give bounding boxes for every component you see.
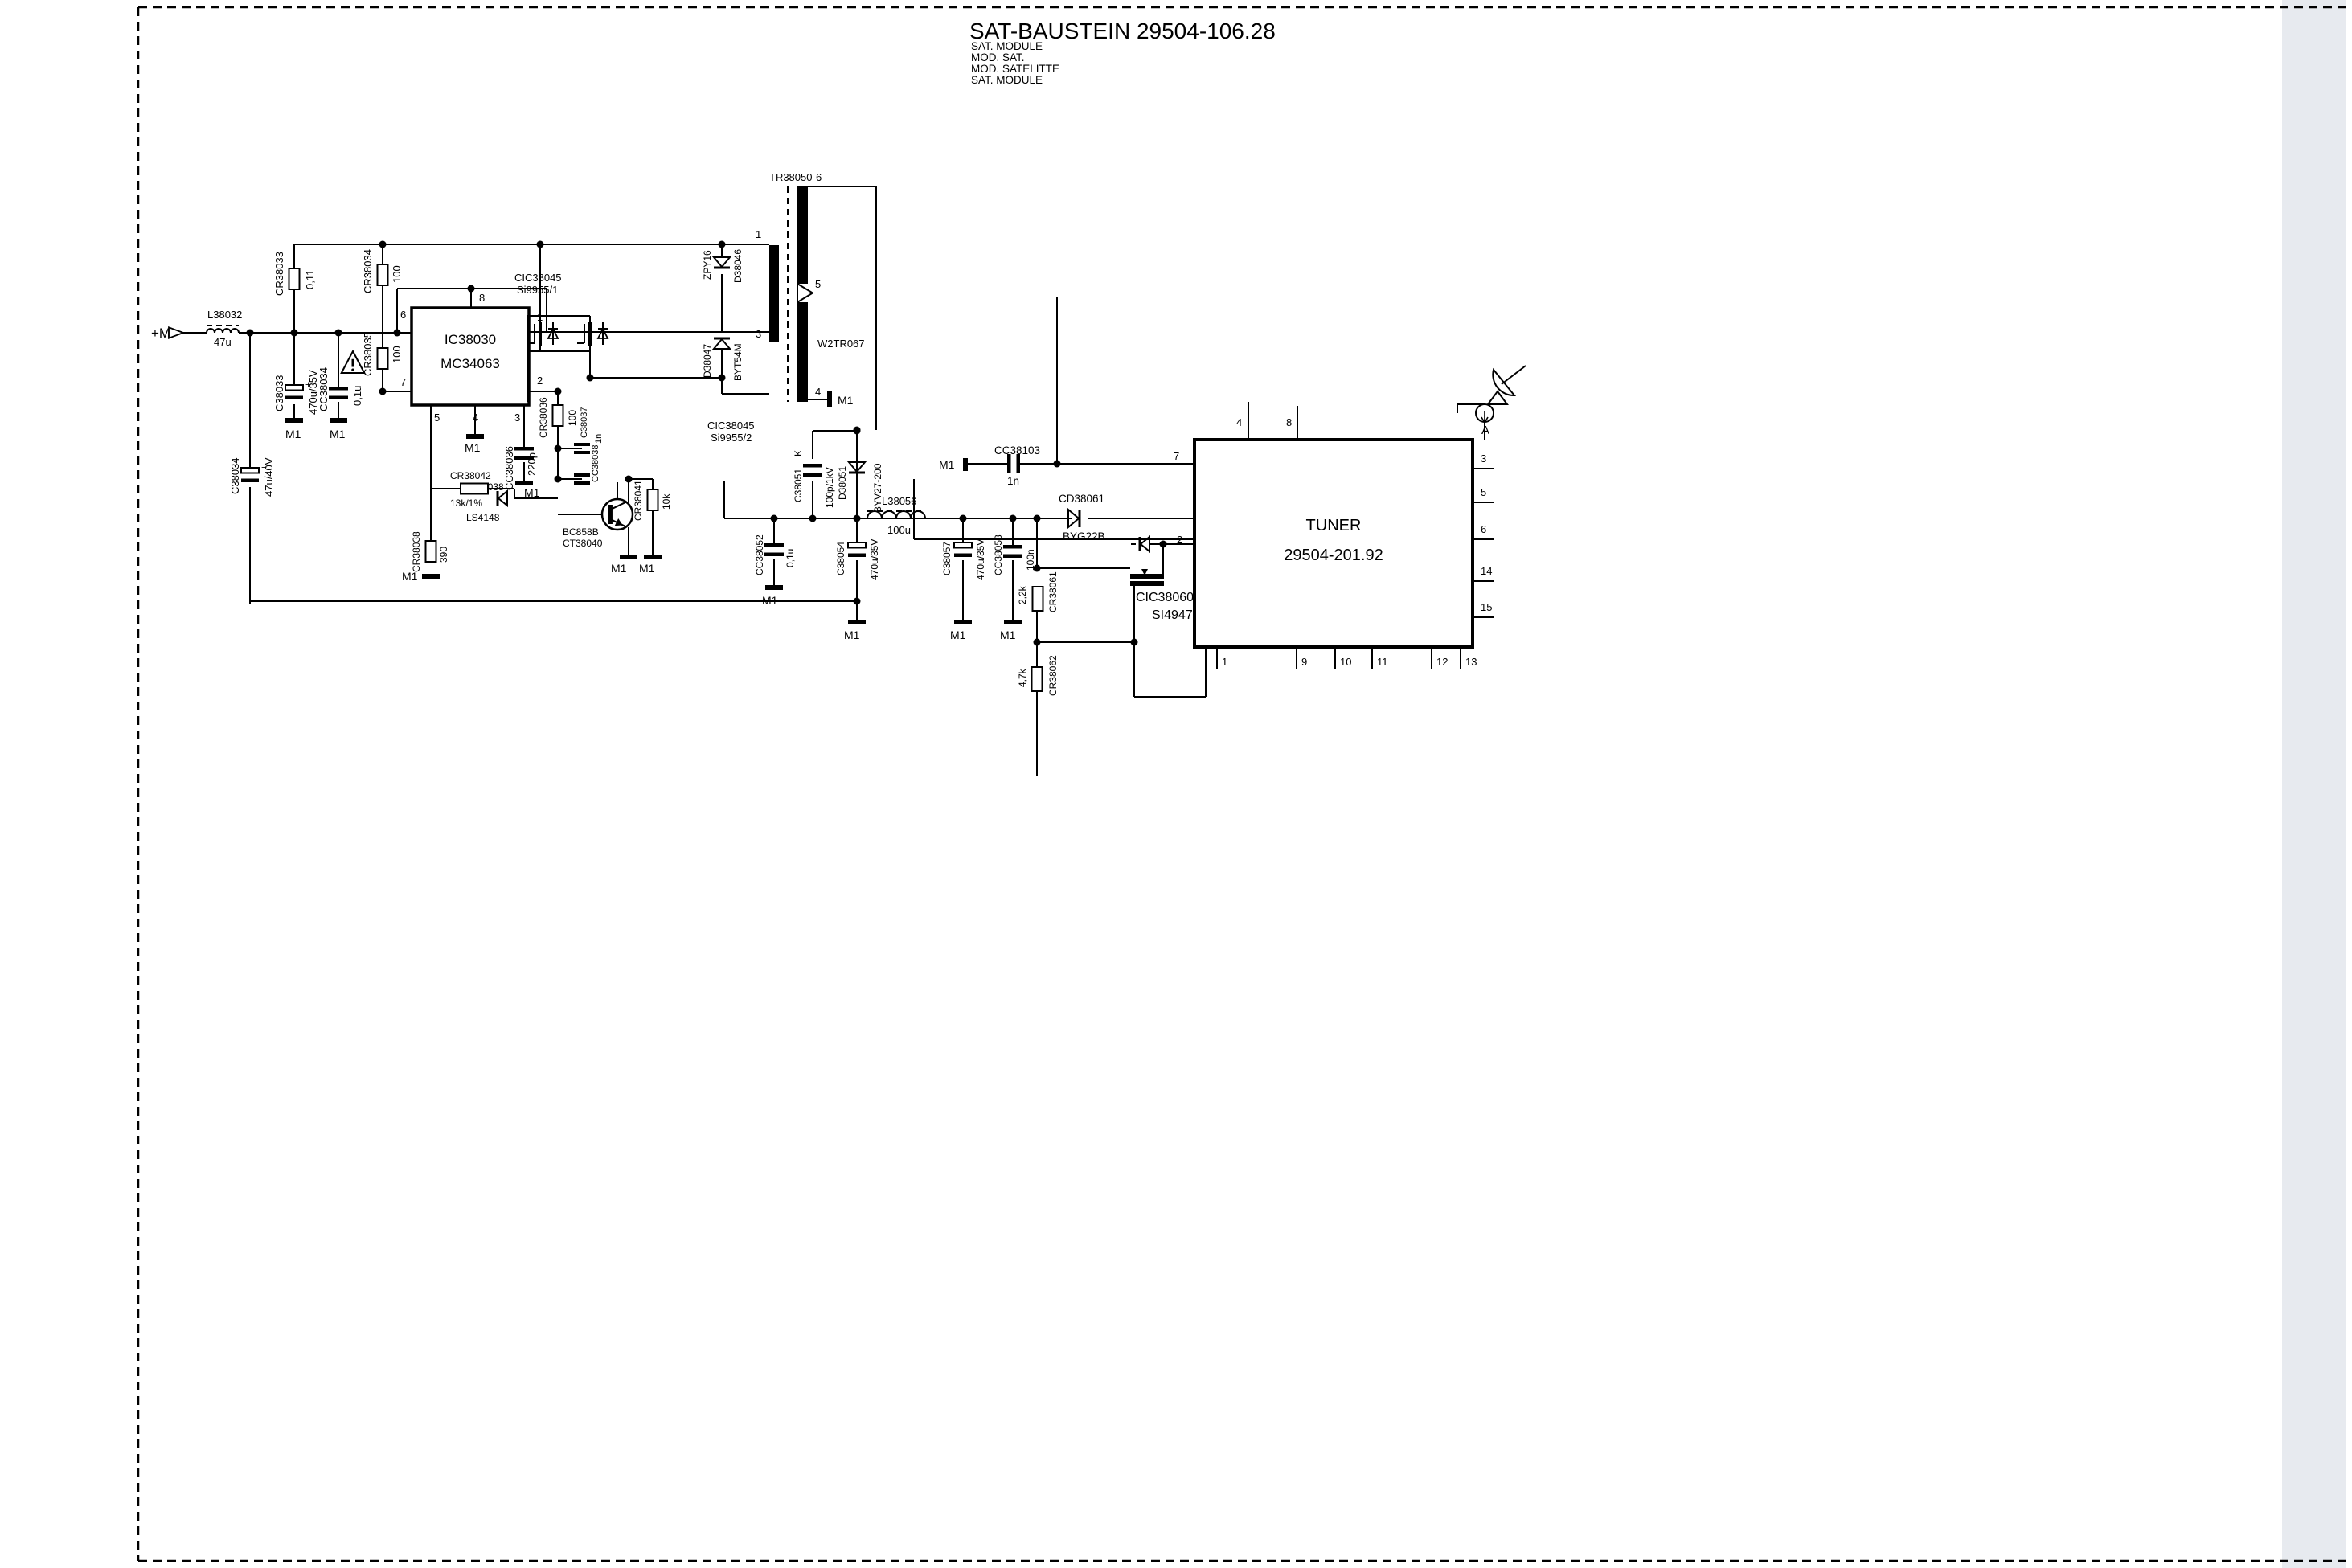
svg-text:L38056: L38056 <box>882 495 916 507</box>
svg-text:D38051: D38051 <box>837 466 848 500</box>
svg-text:6: 6 <box>816 171 822 183</box>
svg-text:100u: 100u <box>887 524 911 536</box>
svg-text:MOD. SAT.: MOD. SAT. <box>971 51 1025 63</box>
svg-text:CR38036: CR38036 <box>538 397 549 438</box>
svg-text:TR38050: TR38050 <box>769 171 812 183</box>
svg-text:SAT. MODULE: SAT. MODULE <box>971 74 1043 86</box>
svg-text:CC38058: CC38058 <box>993 534 1004 575</box>
svg-text:CR38061: CR38061 <box>1047 571 1059 612</box>
svg-text:SI4947: SI4947 <box>1152 608 1193 622</box>
svg-text:0,11: 0,11 <box>304 270 316 289</box>
svg-text:11: 11 <box>1377 656 1388 668</box>
svg-text:CR38042: CR38042 <box>450 470 491 481</box>
svg-text:CC38052: CC38052 <box>754 534 765 575</box>
svg-text:1n: 1n <box>594 434 604 444</box>
svg-text:390: 390 <box>438 547 449 563</box>
svg-text:CC38038: CC38038 <box>591 445 600 482</box>
svg-text:5: 5 <box>1481 486 1486 498</box>
svg-text:4: 4 <box>1236 416 1242 428</box>
svg-text:8: 8 <box>1286 416 1292 428</box>
svg-text:47u: 47u <box>214 336 232 348</box>
svg-text:L38032: L38032 <box>207 309 242 321</box>
svg-text:10: 10 <box>1340 656 1351 668</box>
svg-text:ZPY16: ZPY16 <box>702 250 713 280</box>
svg-text:D38046: D38046 <box>732 249 744 283</box>
svg-text:4: 4 <box>815 386 821 398</box>
svg-text:100: 100 <box>391 346 403 363</box>
svg-text:1: 1 <box>756 228 761 240</box>
svg-text:5: 5 <box>815 278 821 290</box>
svg-text:CR38062: CR38062 <box>1047 655 1059 696</box>
svg-text:CD38061: CD38061 <box>1059 493 1104 505</box>
svg-text:3: 3 <box>1481 452 1486 465</box>
svg-text:W2TR067: W2TR067 <box>817 338 865 350</box>
svg-text:C38051: C38051 <box>793 469 804 502</box>
svg-text:7: 7 <box>1174 450 1179 462</box>
svg-text:+M: +M <box>151 325 170 341</box>
svg-text:M1: M1 <box>524 486 540 499</box>
svg-text:5: 5 <box>434 411 440 424</box>
svg-text:12: 12 <box>1436 656 1448 668</box>
svg-text:M1: M1 <box>838 394 854 407</box>
svg-text:CR38038: CR38038 <box>411 531 422 572</box>
svg-text:M1: M1 <box>1000 628 1016 641</box>
svg-text:CC38036: CC38036 <box>503 446 515 490</box>
svg-text:CC38103: CC38103 <box>994 444 1040 456</box>
svg-text:10k: 10k <box>661 493 672 510</box>
svg-text:C38037: C38037 <box>580 407 589 438</box>
svg-text:BC858B: BC858B <box>563 526 599 538</box>
svg-text:2: 2 <box>537 375 543 387</box>
svg-text:C38034: C38034 <box>229 457 241 494</box>
svg-text:C38033: C38033 <box>273 375 285 411</box>
svg-text:CR38034: CR38034 <box>362 249 374 293</box>
svg-text:TUNER: TUNER <box>1306 517 1362 534</box>
svg-text:29504-201.92: 29504-201.92 <box>1284 547 1383 564</box>
svg-text:LS4148: LS4148 <box>466 512 500 523</box>
svg-text:MOD. SATELITTE: MOD. SATELITTE <box>971 63 1059 75</box>
svg-text:13: 13 <box>1465 656 1477 668</box>
svg-text:470u/35V: 470u/35V <box>869 539 880 580</box>
svg-text:6: 6 <box>1481 523 1486 535</box>
svg-text:2,2k: 2,2k <box>1017 585 1028 604</box>
svg-text:14: 14 <box>1481 565 1492 577</box>
svg-text:1n: 1n <box>1007 475 1019 487</box>
svg-text:D38047: D38047 <box>702 344 713 378</box>
svg-text:0,1u: 0,1u <box>785 549 796 567</box>
svg-text:CC38034: CC38034 <box>318 367 330 411</box>
svg-text:M1: M1 <box>330 428 346 440</box>
svg-text:47u/40V: 47u/40V <box>263 457 275 497</box>
svg-text:3: 3 <box>756 328 761 340</box>
svg-text:M1: M1 <box>639 562 655 575</box>
svg-text:M1: M1 <box>285 428 301 440</box>
svg-text:M1: M1 <box>402 570 418 583</box>
svg-text:M1: M1 <box>939 458 955 471</box>
svg-text:C38057: C38057 <box>941 542 953 575</box>
svg-text:CR38041: CR38041 <box>633 480 644 521</box>
svg-text:MC34063: MC34063 <box>440 356 500 371</box>
svg-text:CIC38045: CIC38045 <box>707 420 755 432</box>
svg-text:15: 15 <box>1481 601 1492 613</box>
svg-text:8: 8 <box>479 292 485 304</box>
svg-text:C38054: C38054 <box>835 542 846 575</box>
svg-text:K: K <box>793 450 804 456</box>
svg-text:CR38035: CR38035 <box>362 332 374 376</box>
svg-text:M1: M1 <box>844 628 860 641</box>
svg-text:CIC38060: CIC38060 <box>1136 591 1194 604</box>
svg-text:BYV27-200: BYV27-200 <box>872 463 883 513</box>
svg-text:6: 6 <box>400 309 406 321</box>
svg-text:BYT54M: BYT54M <box>732 343 744 381</box>
svg-text:9: 9 <box>1301 656 1307 668</box>
svg-text:3: 3 <box>514 411 520 424</box>
svg-text:M1: M1 <box>950 628 966 641</box>
svg-text:7: 7 <box>400 376 406 388</box>
svg-text:CR38033: CR38033 <box>273 252 285 296</box>
svg-text:BYG22B: BYG22B <box>1063 530 1105 542</box>
svg-text:M1: M1 <box>465 441 481 454</box>
svg-text:Si9955/1: Si9955/1 <box>517 284 558 296</box>
svg-text:1: 1 <box>1222 656 1227 668</box>
svg-text:0,1u: 0,1u <box>351 386 363 406</box>
svg-text:100p/1kV: 100p/1kV <box>824 467 835 508</box>
svg-text:100: 100 <box>567 410 578 426</box>
svg-text:SAT. MODULE: SAT. MODULE <box>971 40 1043 52</box>
svg-text:4,7k: 4,7k <box>1017 668 1028 687</box>
svg-text:Si9955/2: Si9955/2 <box>711 432 752 444</box>
svg-text:100: 100 <box>391 265 403 283</box>
svg-text:A: A <box>1481 424 1489 437</box>
svg-text:220p: 220p <box>526 452 538 476</box>
svg-text:CT38040: CT38040 <box>563 538 603 549</box>
svg-text:M1: M1 <box>611 562 627 575</box>
svg-text:IC38030: IC38030 <box>445 332 496 347</box>
svg-text:13k/1%: 13k/1% <box>450 497 482 509</box>
svg-text:CIC38045: CIC38045 <box>514 272 562 284</box>
svg-text:470u/35V: 470u/35V <box>975 539 986 580</box>
